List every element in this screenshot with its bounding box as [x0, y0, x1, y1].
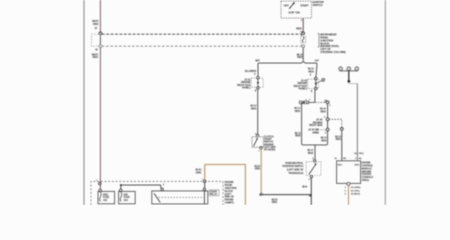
connector circle start fuse bottom (on dashed line 2)	[302, 45, 305, 48]
svg-text:2: 2	[355, 158, 357, 160]
rail drop to relay left contact	[160, 185, 162, 188]
svg-text:8: 8	[255, 89, 257, 92]
wire ORG drop to junction block	[204, 165, 206, 181]
svg-text:ORG: ORG	[272, 200, 278, 204]
wire from J/B edge to relay contact	[204, 183, 206, 189]
svg-text:RED: RED	[296, 27, 302, 31]
svg-text:6: 6	[345, 194, 347, 196]
wire segment between connector circles	[99, 36, 101, 45]
svg-text:STEERING COLUMN): STEERING COLUMN)	[320, 50, 346, 54]
svg-text:10A: 10A	[103, 199, 108, 202]
clutch start switch arm arrowhead	[256, 138, 258, 140]
svg-text:START: START	[210, 190, 218, 193]
svg-text:10A: 10A	[124, 199, 129, 202]
starter relay box	[152, 191, 208, 204]
wire BLU/RED from start fuse down	[302, 48, 304, 62]
svg-text:COMPT): COMPT)	[225, 202, 234, 205]
connector JC-01 bottom circle	[257, 87, 260, 90]
svg-text:16: 16	[95, 48, 98, 51]
wire BLK from P/N switch down	[310, 178, 312, 205]
connector JC-03 internal wire	[315, 80, 317, 88]
wire WHT/RED to fuse 1	[99, 185, 101, 189]
svg-text:4: 4	[163, 183, 165, 186]
svg-text:ORG: ORG	[196, 170, 202, 174]
svg-text:M/T: M/T	[255, 59, 260, 63]
ECM bottom pin circle	[347, 182, 350, 185]
dashed wire (existing circuit) line 2	[102, 45, 302, 47]
svg-text:1: 1	[345, 187, 347, 189]
svg-text:A/T: A/T	[315, 59, 319, 63]
three battery-feed terminals	[339, 67, 342, 70]
svg-text:2: 2	[309, 99, 311, 101]
svg-text:8: 8	[311, 90, 313, 93]
connector JC-01 internal wire	[257, 79, 259, 87]
svg-text:3: 3	[254, 73, 256, 76]
starter relay actuating dashed link	[159, 196, 203, 198]
wire T-drop to P/N switch	[314, 145, 316, 160]
junction mark at bottom run	[309, 194, 312, 197]
P/N switch top contact	[313, 160, 315, 162]
svg-text:TRANSAXLE): TRANSAXLE)	[288, 172, 303, 175]
connector JC-03 bottom circle	[315, 87, 318, 90]
wire A/T branch upper	[316, 63, 318, 65]
svg-text:BLK: BLK	[302, 184, 307, 188]
svg-text:2: 2	[309, 179, 311, 181]
connector circle on dashed line 2	[99, 45, 102, 48]
ignition switch dashed box	[281, 1, 312, 18]
wire ORG horizontal to relay drop	[205, 164, 246, 166]
ignition switch detent dashes	[292, 11, 293, 13]
wire WHT/RED vertical top segment	[99, 0, 101, 33]
svg-text:RIGHT SIDE: RIGHT SIDE	[309, 124, 323, 127]
svg-text:RED: RED	[93, 22, 99, 26]
P/N switch bottom contact	[310, 175, 312, 177]
wire M/T branch upper	[257, 63, 259, 76]
svg-text:RED: RED	[297, 55, 303, 59]
svg-text:E1 (ORG): E1 (ORG)	[351, 187, 361, 189]
engine control module box	[337, 161, 361, 184]
svg-text:RED: RED	[320, 109, 326, 113]
fuse 1 top contact	[99, 189, 102, 192]
bracket for instrument panel label	[318, 34, 320, 47]
connector JC-01 dashed box	[251, 78, 263, 87]
wire BLK bottom run to P/N junction	[262, 194, 311, 196]
left page border line	[83, 0, 85, 205]
starter relay inner contact wire	[203, 191, 205, 204]
svg-text:2: 2	[329, 105, 331, 107]
connector A flag	[325, 100, 327, 102]
clutch start switch box	[252, 137, 263, 148]
svg-text:RED: RED	[308, 151, 314, 155]
leader dashes JC-04 to connector C	[320, 129, 326, 131]
svg-text:START: START	[300, 3, 309, 7]
P/N switch arm arrowhead	[314, 163, 316, 166]
P/N switch box	[306, 162, 321, 176]
svg-text:B2Q: B2Q	[359, 153, 364, 155]
wire WHT/RED long vertical down to junction block	[99, 48, 101, 189]
svg-text:16: 16	[94, 27, 97, 30]
junction connector B circle	[326, 118, 329, 121]
connector A circle	[326, 101, 329, 104]
P/N switch arm	[309, 165, 316, 175]
wire ORG from ECM bottom	[348, 185, 350, 205]
clutch start switch top contact	[256, 134, 259, 137]
svg-text:3: 3	[310, 73, 312, 76]
svg-text:1: 1	[301, 19, 303, 22]
dashed connector box C-01	[92, 34, 99, 46]
wire BLU/RED to ECM pin 1	[341, 130, 343, 161]
junction square	[348, 80, 351, 82]
connector C circle	[326, 128, 329, 131]
svg-text:OF DASH): OF DASH)	[264, 149, 275, 152]
dashed link from row to junction connector	[315, 101, 325, 103]
wire A/T branch to connector row	[314, 90, 316, 103]
connector circle at J/B edge (relay feed)	[203, 180, 206, 183]
fuse 1 box	[98, 191, 115, 203]
wire ORG vertical to off-page (starter)	[244, 165, 246, 206]
connector JC-03 junction dot	[315, 83, 317, 85]
connector circle start fuse top (on dashed line 1)	[302, 32, 305, 35]
svg-text:HIND): HIND)	[312, 131, 319, 134]
wire ORG from clutch switch down	[260, 149, 262, 193]
connector D circle	[340, 127, 343, 130]
starter relay arm	[154, 193, 160, 202]
branch wire to other-page terminal	[317, 81, 322, 84]
svg-text:ON: ON	[296, 11, 300, 15]
junction hump on M/T A/T rail	[301, 62, 305, 63]
svg-text:2Q: 2Q	[354, 153, 357, 155]
fuse 1 element	[100, 192, 102, 201]
start fuse dashed box	[301, 36, 306, 42]
svg-text:6: 6	[324, 117, 326, 119]
wire connecting row to A/T drop	[309, 101, 315, 103]
wire from connector A down to junction B	[327, 104, 329, 118]
fuse 2 element	[120, 192, 122, 201]
svg-text:14: 14	[334, 157, 337, 160]
clutch start switch bottom contact	[260, 147, 263, 150]
svg-text:4Q: 4Q	[359, 157, 362, 160]
right page border line	[384, 0, 386, 205]
starter relay left contact	[161, 188, 163, 190]
wire rail between M/T and A/T branches	[258, 62, 302, 64]
svg-text:PANEL): PANEL)	[242, 86, 251, 89]
dashed branch from junction B to right	[329, 119, 342, 127]
svg-text:MG1: MG1	[338, 165, 343, 167]
wire from connector row left end down and across to connector C	[302, 102, 328, 144]
svg-text:OFF: OFF	[284, 3, 290, 7]
wire down right side to ECM pin 2	[356, 84, 358, 161]
svg-text:8: 8	[325, 132, 327, 134]
starter relay right contact	[203, 188, 205, 190]
ignition switch arm arrowhead	[293, 2, 295, 5]
dashed wire (existing circuit) line 1	[102, 33, 302, 35]
svg-text:AREA): AREA)	[362, 179, 370, 182]
terminal bar	[339, 70, 358, 72]
connector JC-01 top circle	[257, 76, 260, 79]
fuse 2 top contact	[119, 189, 122, 192]
svg-text:RED: RED	[295, 109, 301, 113]
svg-text:1: 1	[259, 150, 261, 152]
svg-text:5: 5	[345, 190, 347, 192]
ignition switch arm	[289, 3, 293, 8]
svg-text:RED: RED	[251, 106, 257, 110]
fuse 2 box	[119, 191, 136, 203]
svg-text:RED: RED	[336, 137, 342, 141]
engine room junction block dashed box	[91, 181, 223, 205]
wire M/T branch to clutch switch	[257, 89, 259, 134]
svg-text:RED: RED	[295, 134, 301, 138]
connector circle on dashed line 1	[99, 32, 102, 35]
wire RED from ignition switch	[302, 18, 304, 33]
svg-text:ACC: ACC	[288, 11, 294, 15]
wire fuse 2 drop	[120, 185, 122, 189]
svg-text:B9: B9	[343, 158, 347, 160]
svg-text:PANEL): PANEL)	[299, 87, 308, 90]
connector JC-03 dashed box	[308, 79, 319, 88]
svg-text:RELAY: RELAY	[210, 193, 218, 196]
connector JC-01 junction dot	[257, 82, 259, 84]
svg-text:ORG: ORG	[255, 167, 261, 171]
inline connector row (pass-through connectors)	[299, 101, 300, 105]
clutch start switch arm	[253, 139, 257, 146]
svg-text:RED: RED	[93, 55, 99, 59]
fuse 2 junction dot on rail	[120, 184, 122, 186]
connector JC-03 top circle	[315, 77, 318, 80]
connector circle WHT/RED at J/B edge	[99, 182, 102, 185]
wire rail from fuse 2 to relay contact	[121, 184, 161, 186]
svg-text:E2 (BLK): E2 (BLK)	[351, 194, 360, 196]
svg-text:MG2: MG2	[355, 165, 360, 167]
wire from junction B to connector C	[327, 121, 329, 129]
svg-text:RED: RED	[321, 138, 327, 142]
svg-text:E1 (YEL): E1 (YEL)	[351, 190, 360, 192]
stem from bar	[348, 71, 350, 80]
other-page terminal circle with arrow	[322, 78, 325, 81]
svg-text:SWITCH: SWITCH	[313, 3, 323, 7]
label STARTER RELAY boxed	[209, 190, 219, 196]
link wire to right vertical	[349, 83, 358, 84]
fuse element symbol	[303, 37, 304, 43]
inline connector at bottom of clutch wire	[259, 193, 261, 195]
